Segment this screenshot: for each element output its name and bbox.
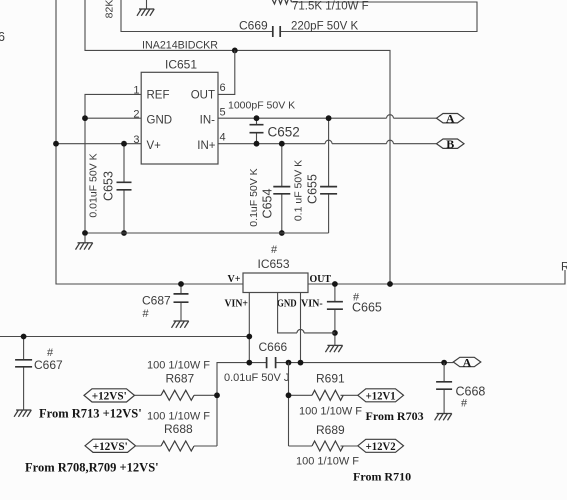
svg-text:1000pF 50V K: 1000pF 50V K xyxy=(228,100,295,112)
svg-text:GND: GND xyxy=(147,115,173,127)
svg-text:4: 4 xyxy=(220,131,226,143)
resistor R689 100 1/10W F xyxy=(289,445,358,447)
ground (under left rail) xyxy=(84,235,86,243)
svg-text:6: 6 xyxy=(220,82,226,94)
svg-text:GND: GND xyxy=(277,299,297,310)
wire: left input rail xyxy=(0,336,249,338)
node: ground rail junction xyxy=(82,230,88,236)
node: C654 top junction xyxy=(279,141,285,147)
regulator IC653 xyxy=(243,273,308,293)
svg-text:VIN+: VIN+ xyxy=(225,299,249,310)
capacitor C652 1000pF 50V K xyxy=(256,118,258,144)
svg-text:5: 5 xyxy=(220,106,226,118)
svg-text:0.1 uF 50V K: 0.1 uF 50V K xyxy=(293,160,305,221)
wire: VIN+ pin drop xyxy=(248,293,250,363)
capacitor C687 xyxy=(180,284,182,321)
svg-text:B: B xyxy=(446,137,454,151)
node: C652 bottom junction xyxy=(254,141,260,147)
wire: pin 5 IN- net to A xyxy=(218,117,437,119)
op-amp IC651 xyxy=(141,72,218,164)
wire: IC653 OUT line to right edge xyxy=(308,270,565,284)
tag +12VS (R687) xyxy=(84,389,135,402)
svg-text:71.5K 1/10W F: 71.5K 1/10W F xyxy=(292,1,369,13)
node: C654 bottom junction xyxy=(279,230,285,236)
svg-text:VIN-: VIN- xyxy=(301,299,323,310)
svg-text:+12VS': +12VS' xyxy=(93,439,128,453)
wire: C669 right to 71.5K resistor loop xyxy=(281,2,477,32)
svg-text:R: R xyxy=(561,262,567,274)
node: C665 bottom junction xyxy=(332,330,338,336)
svg-text:A: A xyxy=(446,112,455,126)
resistor R688 100 1/10W F xyxy=(136,445,218,447)
node: C667 junction xyxy=(21,334,27,340)
node: R691 branch junction xyxy=(286,360,292,366)
resistor 71.5K 1/10W F (cut at top) xyxy=(272,0,292,4)
node: R691 junction xyxy=(286,392,292,398)
svg-text:IC651: IC651 xyxy=(165,58,197,72)
capacitor C667 xyxy=(23,337,25,410)
svg-text:C668: C668 xyxy=(456,385,486,399)
svg-text:#: # xyxy=(461,398,468,410)
wire hop: IN+ over C655 xyxy=(325,140,332,143)
ground (C687) xyxy=(172,321,189,328)
node: pin2 junction xyxy=(82,115,88,121)
node: C652 top junction xyxy=(254,115,260,121)
svg-text:#: # xyxy=(271,244,278,256)
svg-text:C669: C669 xyxy=(239,19,268,33)
node: VIN+ / C666 junction xyxy=(246,360,252,366)
svg-text:+12VS': +12VS' xyxy=(92,389,127,403)
svg-text:+12V1: +12V1 xyxy=(366,388,396,402)
node B tag xyxy=(437,139,465,148)
svg-text:IN+: IN+ xyxy=(197,140,216,152)
wire: pin 2 GND to ground rail xyxy=(85,117,141,119)
tag +12V1 xyxy=(358,389,404,402)
node: C653 top junction xyxy=(121,141,127,147)
svg-text:C654: C654 xyxy=(261,189,275,219)
capacitor C668 xyxy=(443,363,445,414)
svg-text:REF: REF xyxy=(147,90,170,102)
svg-text:R691: R691 xyxy=(316,372,345,386)
svg-text:C655: C655 xyxy=(306,174,320,204)
svg-text:From R713 +12VS': From R713 +12VS' xyxy=(39,407,142,421)
wire: R691/R689 riser xyxy=(288,363,290,446)
tag +12VS (R688) xyxy=(85,439,136,452)
svg-text:INA214BIDCKR: INA214BIDCKR xyxy=(142,40,218,52)
wire: VIN- pin drop xyxy=(300,293,302,363)
svg-text:OUT: OUT xyxy=(191,90,215,102)
svg-text:220pF 50V K: 220pF 50V K xyxy=(291,21,358,33)
tag +12V2 xyxy=(358,439,404,452)
resistor R691 100 1/10W F xyxy=(289,394,358,396)
node: VIN- branch junction xyxy=(298,360,304,366)
svg-text:From R703: From R703 xyxy=(366,409,424,423)
capacitor C655 0.1 uF 50V K xyxy=(328,118,330,233)
wire: left V+ rail to IC653 V+ xyxy=(56,0,243,284)
ground (C667) xyxy=(14,410,31,417)
svg-text:0.01uF 50V K: 0.01uF 50V K xyxy=(88,153,100,217)
capacitor C665 xyxy=(334,284,336,333)
node A tag xyxy=(437,114,465,123)
wire hop: GND line over VIN- xyxy=(297,329,304,332)
wire hop: IN- over riser xyxy=(387,115,394,118)
svg-text:IC653: IC653 xyxy=(258,257,290,271)
wire: INA214BIDCKR net from rail to vertical feed xyxy=(85,0,390,284)
wire hop: IN+ over riser xyxy=(387,140,394,143)
capacitor C654 0.1uF 50V K xyxy=(281,144,283,233)
wire: GND pin of IC653 to C665 ground xyxy=(278,293,335,333)
svg-text:R689: R689 xyxy=(316,423,345,437)
capacitor C653 0.01uF 50V K xyxy=(123,144,125,233)
node: V+ tap on left rail xyxy=(53,141,59,147)
svg-text:0.1uF 50V K: 0.1uF 50V K xyxy=(248,168,260,226)
svg-text:0.01uF 50V J: 0.01uF 50V J xyxy=(224,372,289,384)
node: C687 junction xyxy=(178,281,184,287)
svg-text:100 1/10W F: 100 1/10W F xyxy=(296,456,359,468)
svg-text:C653: C653 xyxy=(102,171,116,201)
svg-text:From R710: From R710 xyxy=(353,470,411,484)
svg-text:R687: R687 xyxy=(166,372,195,386)
svg-text:C667: C667 xyxy=(34,358,63,372)
wire: resistor 82K lead and C669 net xyxy=(121,0,272,32)
node: junction pin6 riser on INA net xyxy=(232,48,238,54)
svg-text:From R708,R709 +12VS': From R708,R709 +12VS' xyxy=(25,461,159,475)
svg-text:C652: C652 xyxy=(268,125,300,140)
svg-text:A: A xyxy=(463,355,472,369)
node: R687 junction xyxy=(214,392,220,398)
svg-text:V+: V+ xyxy=(228,274,241,285)
node: C653 bottom junction xyxy=(121,230,127,236)
svg-text:C665: C665 xyxy=(352,301,382,315)
ground (top) xyxy=(146,0,148,9)
svg-text:+12V2: +12V2 xyxy=(366,439,396,453)
svg-text:IN-: IN- xyxy=(200,115,216,127)
svg-text:100 1/10W F: 100 1/10W F xyxy=(147,360,210,372)
svg-text:C687: C687 xyxy=(142,294,171,308)
svg-text:#: # xyxy=(143,308,150,320)
svg-text:82K: 82K xyxy=(104,0,116,18)
ground (C668) xyxy=(435,414,452,421)
node: C665 top junction xyxy=(332,281,338,287)
wire: pin 6 OUT riser to INA net xyxy=(218,50,235,94)
wire: pin 1 REF to ground rail xyxy=(85,94,141,233)
node: C668 / A junction xyxy=(441,360,447,366)
wire: C665 bottom to ground xyxy=(334,333,336,345)
capacitor C669 220pF 50V K xyxy=(273,26,280,37)
svg-text:6: 6 xyxy=(0,30,5,44)
svg-text:100 1/10W F: 100 1/10W F xyxy=(299,406,362,418)
svg-text:100 1/10W F: 100 1/10W F xyxy=(147,411,210,423)
svg-text:R688: R688 xyxy=(164,422,193,436)
node: riser junction on OUT xyxy=(387,281,393,287)
node: VIN+ rail junction xyxy=(246,334,252,340)
wire: ground rail under C653/C654/C655 xyxy=(85,232,329,234)
svg-text:V+: V+ xyxy=(147,140,162,152)
wire: pin 4 IN+ net to B xyxy=(218,143,437,145)
node: C655 top junction xyxy=(326,115,332,121)
svg-text:OUT: OUT xyxy=(310,274,332,285)
wire: pin 3 V+ of IC651 xyxy=(56,143,141,145)
resistor R687 100 1/10W F xyxy=(135,394,218,396)
capacitor C666 0.01uF 50V J xyxy=(217,363,453,446)
svg-text:C666: C666 xyxy=(259,340,288,354)
